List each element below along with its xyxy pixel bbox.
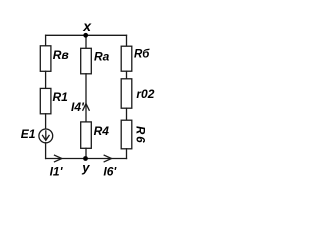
wire left branch top stub — [45, 35, 47, 46]
wire bottom rail — [46, 158, 127, 160]
wire r02 to R6 — [126, 108, 128, 120]
resistor R4 — [81, 122, 92, 148]
svg-text:R1: R1 — [53, 90, 69, 104]
wire R6 to bottom rail — [126, 149, 128, 159]
resistor R6 — [121, 120, 132, 149]
wire between Rв and R1 — [45, 71, 47, 89]
svg-text:y: y — [81, 160, 90, 175]
wire right branch top stub — [126, 35, 128, 46]
resistor Rб — [121, 46, 132, 71]
svg-text:E1: E1 — [21, 127, 36, 141]
source E1 — [39, 129, 53, 143]
svg-text:x: x — [82, 18, 92, 34]
node y — [83, 156, 88, 161]
svg-text:I1': I1' — [50, 165, 64, 179]
wire middle branch top stub — [85, 35, 87, 48]
svg-text:R4: R4 — [94, 124, 110, 138]
svg-text:r02: r02 — [136, 87, 154, 101]
svg-text:I4': I4' — [71, 100, 85, 114]
wire Ra to R4 with I4' arrow — [85, 74, 87, 122]
svg-text:Ra: Ra — [94, 50, 110, 64]
wire R4 to y node — [85, 148, 87, 158]
wire E1 to bottom rail — [45, 143, 47, 159]
wire R1 to E1 — [45, 114, 47, 129]
svg-text:R6: R6 — [133, 126, 145, 145]
svg-text:Rб: Rб — [134, 48, 150, 60]
arrow I1' on bottom rail — [55, 155, 62, 162]
resistor R1 — [40, 88, 51, 113]
svg-text:Rв: Rв — [53, 48, 69, 62]
wire top rail x node to right — [46, 34, 127, 36]
node x — [83, 33, 88, 38]
resistor r02 — [121, 79, 132, 108]
arrow I6' on bottom rail — [104, 155, 111, 162]
resistor Rв — [40, 46, 51, 72]
wire Rб to r02 — [126, 71, 128, 79]
resistor Ra — [81, 48, 92, 74]
svg-text:I6': I6' — [103, 165, 117, 179]
